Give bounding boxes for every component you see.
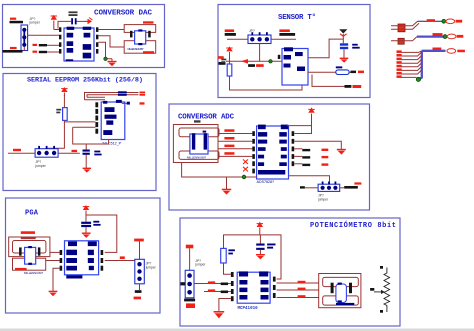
pins U9 right [273, 277, 276, 298]
bus horizontal group3 [422, 50, 446, 52]
net label D4 [397, 65, 402, 67]
wire JP4 right [340, 187, 345, 189]
connector CN2 [398, 38, 404, 44]
junction node port2 [443, 35, 447, 39]
wire left A0 [8, 152, 35, 154]
wire D3 [397, 59, 422, 63]
block border PGA [6, 198, 161, 313]
label JP2 jumper [34, 160, 46, 168]
wire JP3 right [271, 38, 296, 40]
pins U1 right [96, 27, 98, 53]
wire WP [122, 102, 127, 104]
label bottom red [15, 268, 27, 270]
wire CH1 [218, 140, 252, 142]
capacitor C4 [81, 222, 91, 227]
label R3 [336, 66, 343, 68]
wire +5V to R1 [63, 95, 65, 108]
jumper JP4 [318, 182, 340, 192]
power symbol top right [339, 29, 347, 39]
net label below JP6 [184, 299, 195, 308]
ground GND8 [256, 254, 265, 259]
label X1 [194, 120, 201, 122]
bottom gray strip [0, 329, 474, 331]
block border SERIAL EEPROM [3, 74, 156, 191]
component U5 reference [173, 125, 219, 163]
component U7 reference [9, 237, 50, 270]
net label right of JP4 [344, 182, 361, 188]
wire C3 bottom [343, 49, 345, 58]
wire +5V rail right [86, 215, 117, 252]
wire R2 bottom [230, 76, 303, 90]
IC U6 ADC [257, 125, 289, 179]
IC U3 EEPROM [101, 100, 125, 140]
wire SDA top [85, 95, 139, 100]
terminal wiper [370, 288, 374, 291]
pins U6 right [292, 131, 295, 166]
block border CONVERSOR ADC [169, 104, 370, 210]
wire U6 to gnd [294, 141, 341, 149]
net label below JP5 [134, 290, 142, 299]
label C5 68pF [267, 244, 275, 249]
IC U4 sensor [282, 47, 308, 85]
ground GND3 [340, 58, 349, 63]
svg-text:CONVERSOR DAC: CONVERSOR DAC [94, 10, 152, 18]
wire D2 [397, 55, 422, 59]
wire cap stem [259, 235, 261, 244]
power +5V P7 [257, 222, 263, 235]
junction node TM [269, 60, 272, 63]
ground GND1 [108, 59, 117, 67]
wire C2 top [85, 144, 87, 150]
wire bottom to jumper [289, 176, 330, 184]
net label SDA [118, 94, 145, 96]
ground GND5 [222, 177, 231, 195]
net label DOUT [302, 156, 328, 159]
wire D7 [397, 76, 417, 78]
wire +5V to pin1 [54, 29, 59, 31]
wire U8 bottom left [53, 268, 60, 291]
wire C5 bottom [259, 250, 261, 254]
net label left edge [181, 282, 186, 285]
svg-text:SERIAL EEPROM 256Kbit (256/8): SERIAL EEPROM 256Kbit (256/8) [27, 77, 143, 85]
pins U8 left [60, 250, 63, 271]
resistor R1 [63, 108, 68, 121]
label C4 68pF [93, 221, 100, 226]
label C3 10uF [352, 44, 360, 49]
wire U1 pin to junction [98, 42, 112, 59]
net label D7 [397, 75, 402, 77]
net label D6 [397, 72, 402, 74]
junction node [104, 57, 107, 60]
wire cap rail [58, 21, 85, 28]
net label D2 [397, 58, 402, 60]
pins U3 left [95, 102, 98, 133]
wire C2 bottom [85, 155, 87, 168]
wire CH3 [218, 155, 252, 157]
jumper JP2 [35, 146, 58, 157]
net label PB0 [208, 281, 228, 285]
ground GND6 [82, 233, 91, 238]
label JP1 jumper [29, 17, 41, 25]
svg-text:MILLENNIUM?: MILLENNIUM? [187, 155, 206, 159]
net label A1 [72, 150, 78, 152]
block border SENSOR T [218, 5, 370, 98]
label C1 0.1uF [69, 11, 78, 16]
pins U6 left [252, 131, 255, 173]
component U2 reference [124, 25, 156, 54]
resistor R3 [336, 70, 349, 75]
wire to JP3 [227, 38, 248, 40]
wire U3 pin lower [73, 127, 109, 144]
net label left of JP4 [300, 186, 305, 188]
power +5V P1 [51, 15, 57, 30]
net label CH3 [224, 152, 234, 155]
wire PB0 row [194, 283, 231, 285]
net label CH0 [224, 129, 234, 132]
capacitor C5 [256, 244, 264, 250]
wire PB row [277, 297, 319, 299]
net label TM [248, 64, 264, 67]
svg-text:MILLENNIUM?: MILLENNIUM? [24, 271, 43, 275]
wire U7 row1 [50, 251, 60, 253]
wire R4 bottom [224, 263, 231, 274]
svg-text:jumper: jumper [34, 164, 46, 168]
wire PA0 row [277, 282, 319, 284]
label dark red [21, 237, 36, 239]
capacitor C1 [71, 18, 76, 24]
wire CH0 [218, 133, 252, 135]
svg-text:MCP41010: MCP41010 [238, 307, 259, 311]
wire +5V to C4 [85, 213, 87, 222]
power +5V arrow P2 [85, 18, 93, 25]
net label ALT [349, 71, 364, 74]
IC U9 MCP41010 [237, 271, 270, 303]
net label on wire [120, 256, 125, 259]
wire CS row [294, 163, 302, 165]
label U10 name [336, 303, 354, 305]
op IC U1 DAC [64, 27, 94, 62]
net label SCL [118, 91, 145, 93]
wire U1 to U2 row2 [98, 36, 124, 47]
wire U8 to JP5 [105, 260, 140, 262]
block border CONVERSOR DAC [3, 5, 165, 68]
connector JP1 [21, 25, 28, 51]
net label +5V left [225, 29, 236, 35]
svg-text:jumper: jumper [145, 266, 157, 270]
ground GND2 [83, 168, 91, 173]
wire C4 bottom [85, 227, 87, 233]
wire gnd row [219, 299, 231, 312]
wire DIN row [294, 148, 302, 150]
power +5V P6 [83, 205, 89, 214]
wire JP6 top [189, 248, 191, 270]
net label SCL row [33, 44, 48, 47]
pins U9 left [231, 272, 234, 301]
bus vertical group3 [419, 51, 422, 80]
wire D5 [397, 66, 422, 70]
wire PB1 row [204, 291, 231, 293]
net label bus [433, 48, 442, 50]
net label port2 [433, 33, 443, 36]
wire jumper right [58, 152, 80, 154]
bus to port 2 [417, 35, 444, 37]
net label TA [345, 85, 362, 88]
terminal top [380, 266, 383, 269]
label C16 P21 [21, 231, 35, 234]
connector JP6 [185, 270, 194, 298]
wire D0 [397, 51, 422, 53]
no-connect X row5 [243, 159, 248, 164]
net label right of JP3 [279, 29, 295, 35]
svg-text:jumper: jumper [317, 197, 329, 201]
net label left edge [218, 56, 226, 65]
net label PB [298, 295, 306, 298]
label port1 [456, 20, 463, 23]
label C2 68pF [94, 151, 101, 156]
wire U6 pin to rail [294, 126, 311, 134]
component U10 reference [319, 274, 361, 308]
net label PA0 [298, 281, 306, 284]
potentiometer RV1 [374, 268, 390, 313]
capacitor C2 [83, 150, 90, 155]
net label D1 [397, 54, 402, 56]
svg-text:PGA: PGA [25, 210, 39, 218]
label port3 [457, 50, 465, 53]
wire TA row [312, 75, 345, 87]
svg-text:jumper: jumper [29, 20, 41, 24]
svg-text:POTENCIÓMETRO 8bit: POTENCIÓMETRO 8bit [310, 220, 396, 230]
pins U8 right [101, 250, 104, 271]
wire connector bottom stem [23, 47, 25, 51]
label port2 [457, 35, 464, 38]
net label SDA row [33, 51, 48, 54]
resistor R2 [227, 64, 232, 76]
svg-text:jumper: jumper [194, 263, 206, 267]
port P3 oval [447, 49, 456, 54]
no-connect X row6 [243, 167, 248, 172]
jumper JP5 [135, 259, 145, 284]
svg-text:MILLENNIUM B?: MILLENNIUM B? [128, 47, 145, 51]
wire U5 bottom [182, 163, 257, 178]
net label DIN [302, 149, 328, 152]
wire CN1 a [391, 21, 418, 26]
IC U8 PGA [65, 241, 99, 279]
port P1 oval [446, 19, 455, 24]
wire JP5 bottom [139, 284, 141, 290]
net label D3 [397, 61, 402, 63]
wire U4 right to cap rail [308, 39, 343, 58]
label R4 1K [228, 249, 235, 254]
label JP6 jumper [194, 259, 206, 267]
wire U7 row2 [46, 260, 60, 262]
terminal bottom [380, 310, 383, 313]
ground GND7 [49, 291, 58, 297]
svg-text:ADS7828?: ADS7828? [257, 180, 274, 184]
wire net to port 1 [418, 20, 443, 22]
junction node bottom [242, 175, 246, 179]
label JP4 jumper [317, 194, 329, 202]
port P2 oval [447, 34, 456, 39]
net label ADDR1 bottom [3, 47, 23, 53]
net label WP [127, 102, 145, 105]
capacitor C3 [340, 43, 348, 49]
wire connector to U1 pin [28, 34, 59, 36]
svg-text:JP?: JP? [249, 29, 255, 33]
net label D0 [397, 50, 402, 52]
wire JP4 left [305, 187, 319, 189]
wire CH2 [218, 148, 252, 150]
wire +5V rail [287, 116, 312, 126]
wire DOUT row [294, 155, 302, 157]
net label CH2 [224, 145, 234, 148]
svg-text:SENSOR T°: SENSOR T° [278, 13, 316, 22]
ground GND9 [214, 311, 225, 318]
block border POTENCIOMETRO [180, 218, 400, 326]
label R2 [221, 59, 226, 63]
label +5V upper [143, 21, 154, 23]
wire SCL [47, 44, 59, 46]
wire D1 [397, 52, 422, 56]
net label CS [302, 163, 328, 166]
wire TM row [226, 60, 283, 62]
net label PB1 [208, 289, 228, 293]
wire U1 to U2 row1 [98, 29, 124, 31]
wire D6 [397, 70, 422, 74]
wire R1 to U3 pin [64, 121, 95, 123]
wire SCL top [85, 93, 139, 100]
wire CN2 [391, 37, 417, 41]
connector CN1 [398, 24, 405, 32]
wire CN1 b [391, 23, 419, 29]
label JP5 jumper [145, 262, 157, 270]
net label port1 [427, 19, 435, 22]
pin U4 left [278, 55, 281, 59]
wire R1 to jumper [47, 120, 64, 151]
label R1 1K [56, 109, 61, 113]
net label CH1 [224, 137, 234, 140]
wire +5V to R2 [229, 55, 231, 64]
svg-text:CONVERSOR ADC: CONVERSOR ADC [178, 114, 235, 122]
input arrow TM [241, 59, 248, 64]
power +5V P3 [61, 87, 67, 96]
wire JP5 top [139, 242, 141, 260]
pins U1 left [59, 27, 61, 53]
resistor R4 [221, 248, 227, 263]
ground GND4 [337, 149, 346, 155]
net label above JP5 [134, 239, 144, 242]
junction node port1 [442, 19, 446, 23]
wire JP3 down to U4 [259, 44, 261, 62]
net label A0 [13, 149, 21, 151]
wire PW0 row [277, 289, 319, 291]
wire top rail [224, 235, 282, 279]
net label D5 [397, 68, 402, 70]
net label PW0 [298, 288, 306, 291]
jumper JP3 [248, 32, 271, 43]
net label ADDR0 top [10, 18, 24, 24]
power +5V P5 [308, 107, 314, 117]
net label above JP6 [186, 245, 194, 249]
wire D4 [397, 63, 422, 67]
wire SDA [47, 51, 59, 53]
wire U4 to R3 [308, 71, 336, 73]
power +5V P4 [226, 46, 232, 56]
junction node bus [416, 77, 420, 81]
label +5V lower [143, 51, 154, 54]
